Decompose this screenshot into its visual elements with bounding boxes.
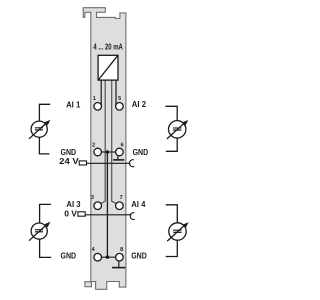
svg-text:5: 5 [118, 96, 121, 102]
svg-text:3: 3 [91, 195, 94, 201]
svg-text:24 V: 24 V [59, 156, 79, 166]
svg-text:7: 7 [120, 195, 123, 201]
svg-text:GND: GND [131, 251, 147, 261]
svg-text:4 ... 20 mA: 4 ... 20 mA [93, 42, 122, 52]
svg-text:8: 8 [120, 247, 123, 253]
svg-text:GND: GND [61, 251, 77, 261]
svg-text:1: 1 [93, 96, 96, 102]
svg-text:AI 2: AI 2 [132, 99, 146, 109]
svg-text:0 V: 0 V [64, 208, 77, 218]
svg-text:6: 6 [121, 143, 124, 149]
svg-text:2: 2 [92, 143, 95, 149]
svg-text:GND: GND [133, 147, 149, 157]
svg-text:AI 1: AI 1 [66, 100, 80, 110]
svg-text:AI 4: AI 4 [131, 199, 145, 209]
